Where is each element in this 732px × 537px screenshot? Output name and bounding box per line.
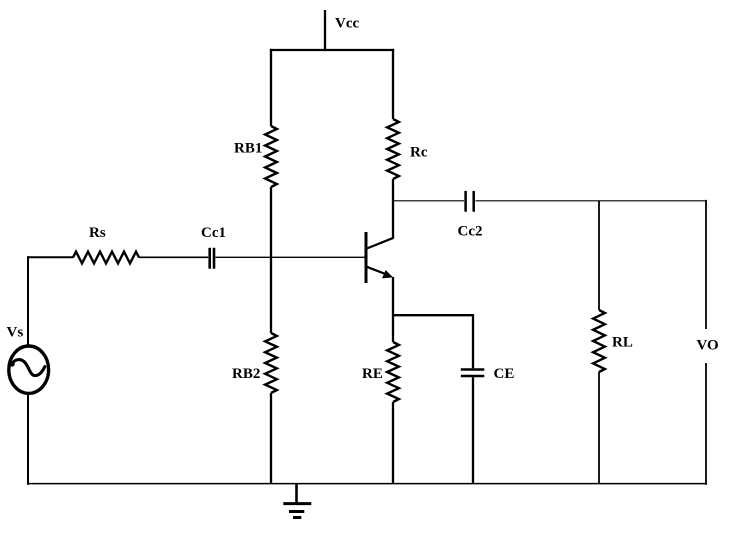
resistor Rc (387, 119, 399, 179)
wire Cc2 to output node (476, 200, 708, 202)
ground stem (295, 484, 298, 504)
wire bottom rail (27, 483, 707, 485)
capacitor Cc2 (464, 191, 467, 212)
svg-text:RB2: RB2 (232, 366, 260, 382)
capacitor CE (461, 368, 485, 370)
ground bar 3 (293, 516, 301, 519)
wire output right upper (705, 200, 707, 329)
wire Rs to Cc1 (139, 256, 208, 258)
svg-text:Cc1: Cc1 (201, 225, 226, 241)
transistor Q1 base bar (365, 232, 368, 283)
ground bar 1 (283, 502, 311, 505)
svg-text:RE: RE (362, 366, 383, 382)
resistor RE (387, 342, 399, 402)
svg-text:Vs: Vs (7, 325, 24, 341)
svg-text:Rc: Rc (410, 145, 428, 161)
wire RB2 bottom (270, 393, 272, 484)
wire input left segment (27, 256, 73, 258)
wire RB1 top (270, 49, 272, 126)
resistor Rs (73, 252, 139, 264)
capacitor Cc1 (208, 248, 211, 269)
svg-text:CE: CE (494, 366, 515, 382)
resistor RB1 (265, 126, 277, 187)
svg-text:Rs: Rs (89, 225, 106, 241)
wire RL bottom (598, 372, 600, 484)
transistor Q1 collector diagonal (367, 238, 394, 249)
wire collector to Cc2 (393, 200, 464, 202)
wire emitter vertical (392, 277, 394, 342)
wire Vcc stub (324, 10, 326, 50)
source Vs circle (9, 346, 49, 393)
wire base (216, 256, 365, 258)
wire RB1-RB2 mid column (270, 187, 272, 333)
resistor RL (593, 310, 605, 372)
wire top rail (270, 49, 394, 51)
svg-text:VO: VO (697, 338, 719, 354)
wire RE bottom (392, 402, 394, 484)
wire CE bottom (472, 377, 474, 484)
wire source top (27, 256, 29, 346)
wire output right lower (705, 363, 707, 485)
svg-text:Cc2: Cc2 (458, 224, 483, 240)
transistor Q1 emitter arrowhead (382, 270, 393, 278)
resistor RB2 (265, 333, 277, 393)
wire CE top (472, 314, 474, 368)
wire RL top (598, 201, 600, 310)
source Vs sine wave (12, 360, 45, 376)
svg-text:RB1: RB1 (234, 141, 262, 157)
wire collector vertical (392, 179, 394, 239)
transistor Q1 emitter diagonal (367, 267, 389, 275)
wire Rc top (392, 49, 394, 119)
wire emitter to CE (393, 314, 473, 316)
source Vs ink blob (10, 361, 15, 366)
wire source bottom (27, 393, 29, 485)
svg-text:RL: RL (612, 335, 633, 351)
ground bar 2 (289, 510, 304, 513)
svg-text:Vcc: Vcc (335, 16, 359, 32)
